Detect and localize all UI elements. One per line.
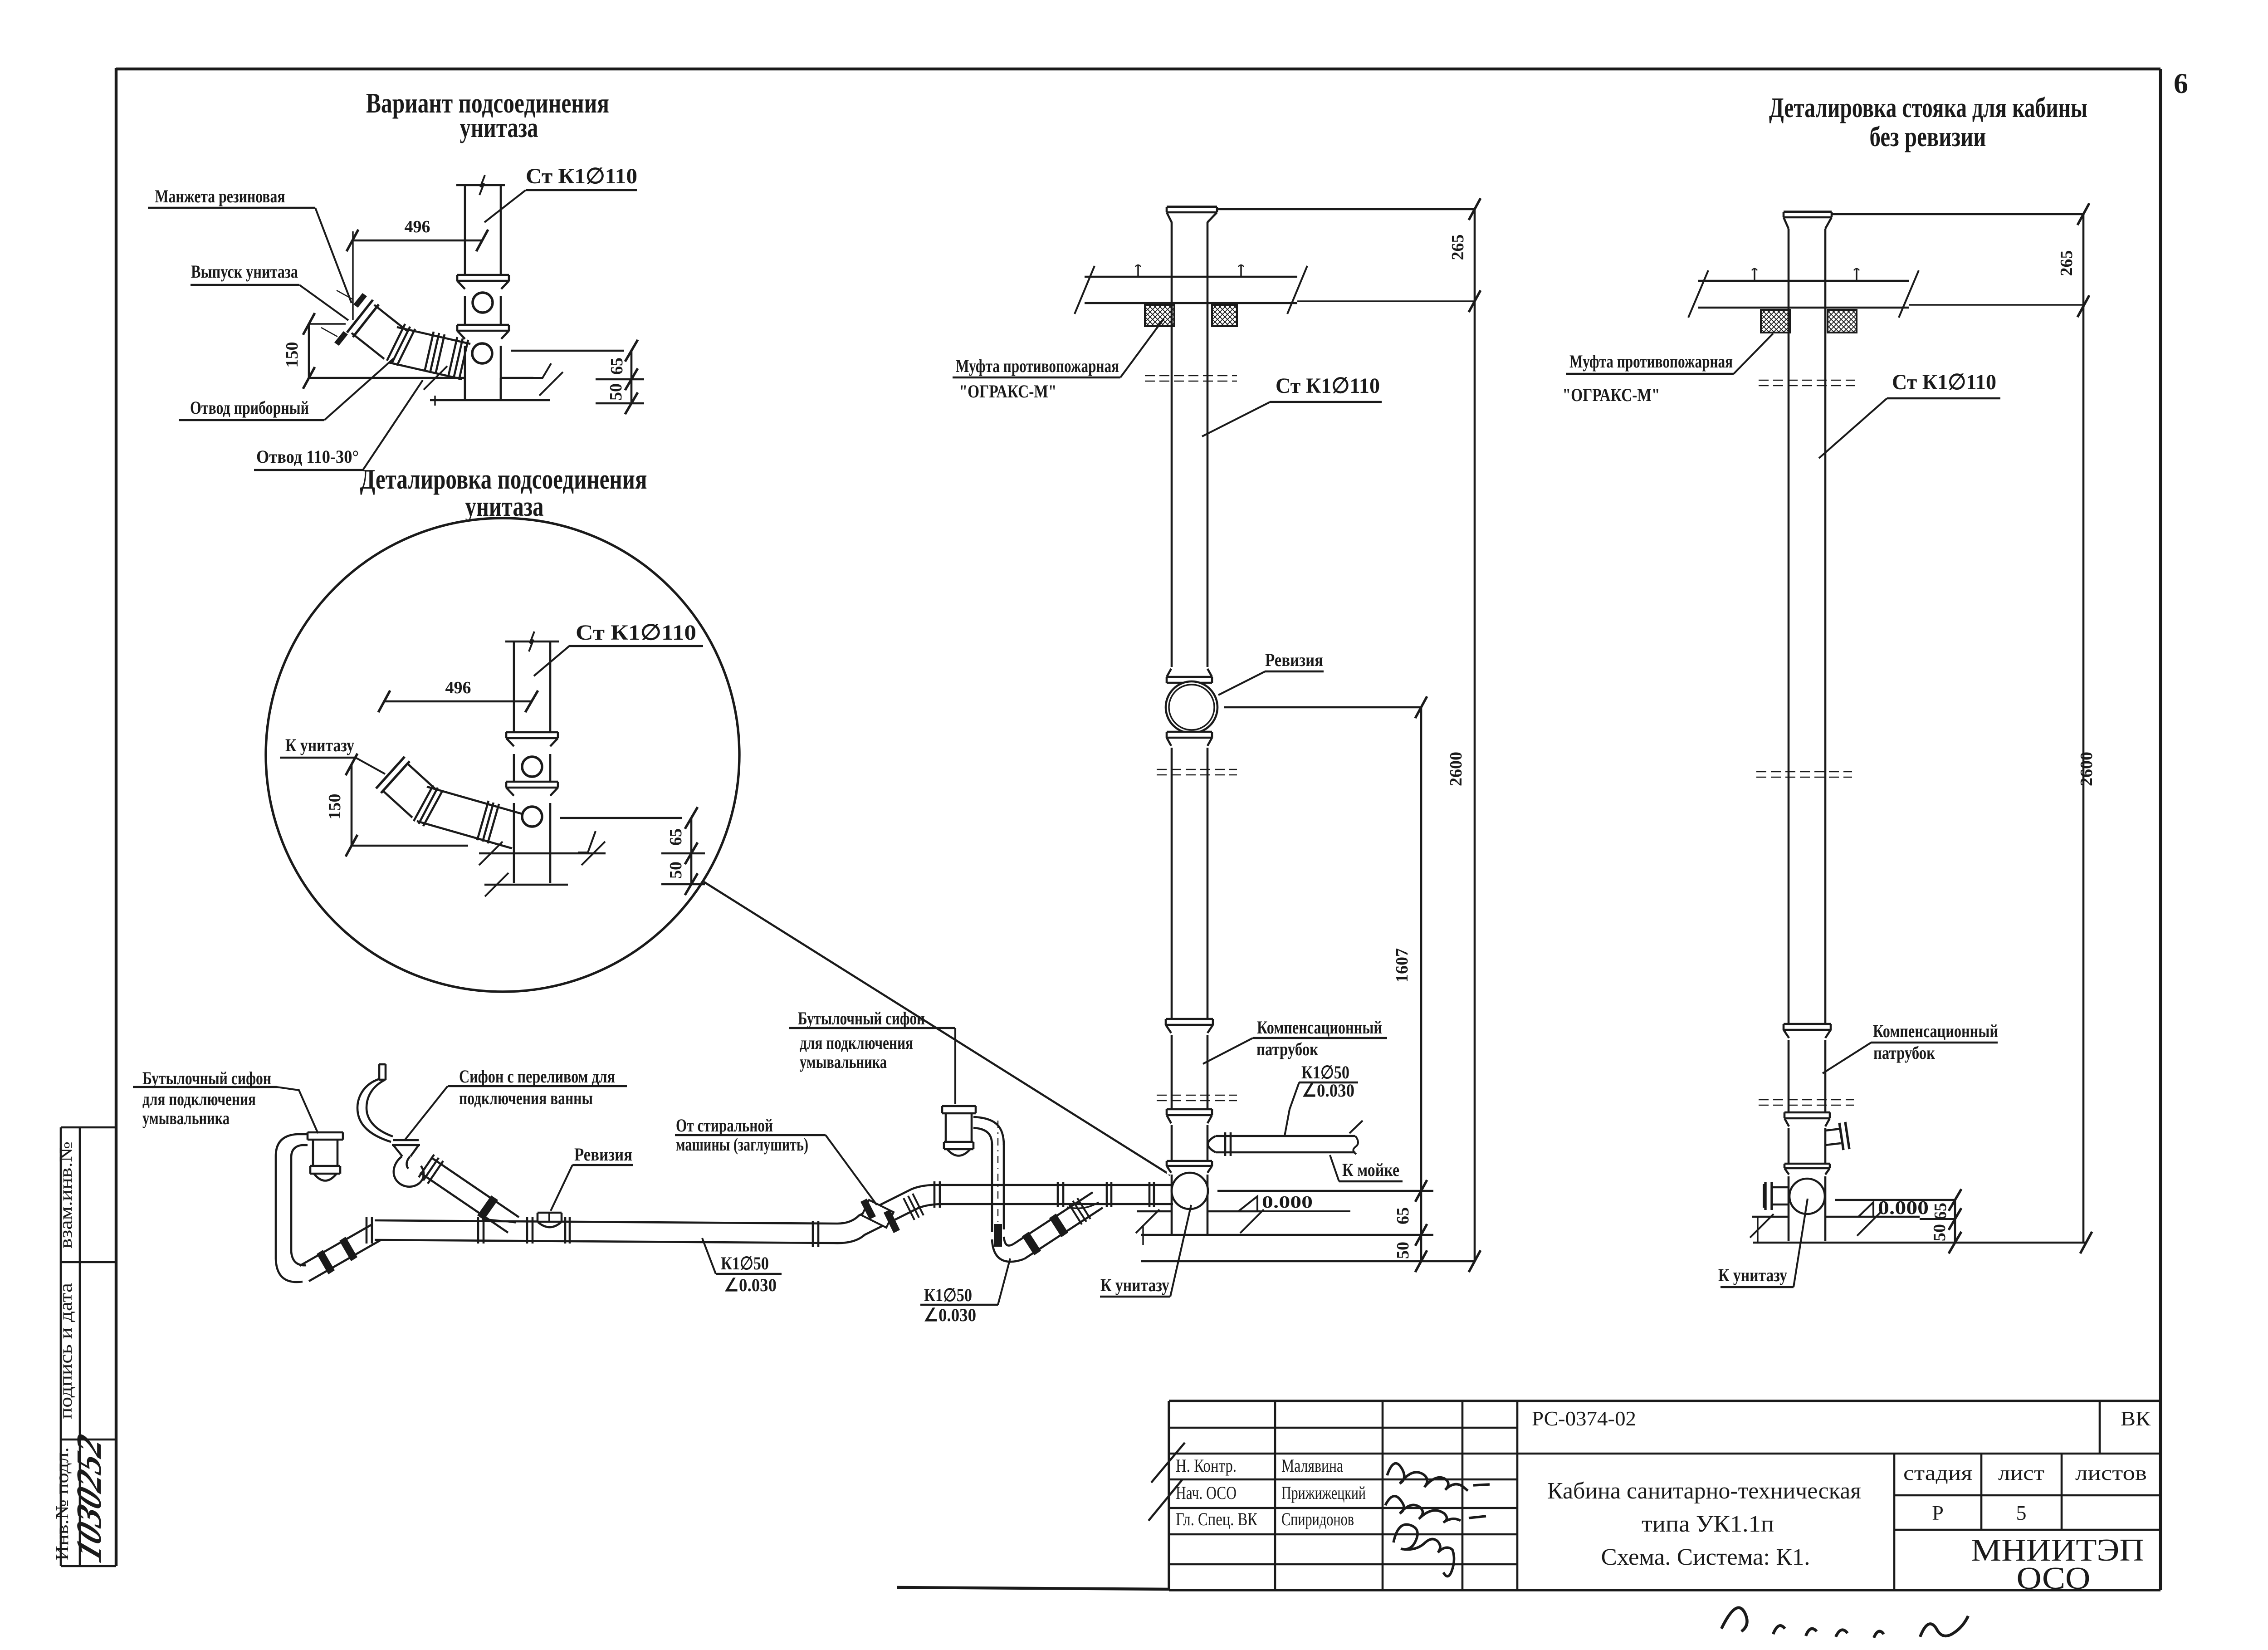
anchor pins on slab (right)	[1754, 269, 1755, 281]
revision reference line (central)	[1224, 706, 1421, 709]
coupling band 1 on branch (variant)	[387, 324, 405, 361]
tee below floor (circle detail)	[513, 853, 515, 883]
sink branch pipe K mojke	[1216, 1135, 1355, 1137]
revision lower socket (central)	[1167, 732, 1212, 748]
svg-text:265: 265	[2057, 250, 2076, 276]
ring before siphon2 Y	[1057, 1182, 1059, 1207]
slab extension line (right)	[1909, 304, 2083, 305]
compensation socket (central)	[1166, 1019, 1213, 1035]
washing machine Y stub	[862, 1200, 894, 1228]
wall dash line upper (central)	[1157, 769, 1237, 770]
black couplings on siphon2 connector	[1022, 1232, 1041, 1255]
svg-text:496: 496	[445, 678, 471, 697]
bottle siphon 1 dome	[314, 1174, 337, 1181]
svg-text:К унитазу: К унитазу	[285, 735, 354, 755]
central riser pipe	[1171, 222, 1173, 683]
siphon 2 connector diagonal	[1024, 1208, 1103, 1259]
floor break flag (circle detail)	[578, 831, 596, 852]
coupling band B (circle detail)	[477, 801, 489, 840]
socket above floor tee (central)	[1167, 1161, 1212, 1175]
revision opening circle 2 (variant)	[472, 343, 492, 363]
svg-text:типа УК1.1п: типа УК1.1п	[1642, 1511, 1774, 1537]
bottle siphon 2 body	[945, 1113, 947, 1142]
left margin cell separators	[61, 1126, 116, 1129]
ring after siphon2 Y	[1106, 1182, 1108, 1207]
bottom line (right floor dims)	[1753, 1242, 2087, 1244]
svg-text:65: 65	[1931, 1203, 1950, 1220]
svg-text:Сифон с переливом для: Сифон с переливом для	[459, 1066, 615, 1087]
bottle siphon 2 cup flange	[942, 1105, 976, 1107]
floor level flag (variant)	[533, 363, 551, 378]
dimension 265 top line (central)	[1217, 208, 1475, 211]
revision cap on run	[538, 1213, 561, 1222]
svg-text:2600: 2600	[1447, 752, 1466, 786]
dimension 1607 vertical (central)	[1420, 707, 1422, 1191]
sloped toilet branch segment 1 (circle detail)	[382, 790, 412, 818]
svg-text:Малявина: Малявина	[1281, 1455, 1343, 1476]
black coupling at siphon2 downpipe bottom	[994, 1224, 1002, 1247]
svg-text:К1∅50: К1∅50	[721, 1253, 769, 1273]
drawing frame right border	[2159, 69, 2162, 1590]
stack top cut line (circle detail)	[505, 641, 559, 643]
siphon 2 bottom elbow	[992, 1239, 1024, 1262]
svg-text:65: 65	[1393, 1207, 1413, 1224]
svg-text:65: 65	[607, 357, 626, 375]
right dim bottom line (variant)	[596, 402, 644, 405]
title block outer and grid	[1169, 1400, 1517, 1402]
overflow hose flange	[379, 1063, 386, 1066]
svg-text:Деталировка стояка для кабины: Деталировка стояка для кабины	[1769, 93, 2087, 123]
leader to siphon 2	[954, 1028, 956, 1104]
svg-text:Ст К1∅110: Ст К1∅110	[1892, 370, 1996, 394]
svg-text:496: 496	[405, 217, 430, 236]
signature 1	[1387, 1464, 1490, 1491]
svg-text:Муфта противопожарная: Муфта противопожарная	[956, 356, 1119, 376]
dashed sleeve line (right)	[1759, 380, 1855, 381]
right dim mid line (variant)	[596, 378, 644, 381]
revision circle (central)	[1166, 681, 1217, 733]
revision upper socket (central)	[1167, 667, 1212, 683]
rubber cuff marks (variant)	[353, 293, 367, 308]
floor line right segment (central)	[1208, 1210, 1260, 1213]
svg-text:без ревизии: без ревизии	[1870, 122, 1986, 152]
slab extension line (central)	[1297, 300, 1475, 302]
title block big panel top	[1517, 1400, 2160, 1402]
anchor pins on slab (central)	[1137, 265, 1139, 277]
pointer line from circle to riser	[704, 882, 1170, 1175]
dashed sleeve line (central)	[1145, 375, 1237, 377]
svg-text:Прижижецкий: Прижижецкий	[1281, 1483, 1366, 1503]
svg-text:К1∅50: К1∅50	[1301, 1062, 1349, 1082]
svg-text:листов: листов	[2075, 1461, 2147, 1484]
svg-text:патрубок: патрубок	[1256, 1039, 1318, 1059]
run socket ring before offset	[812, 1221, 814, 1247]
wall dash line lower (right)	[1759, 1099, 1854, 1101]
opening circle 2 (circle detail)	[522, 807, 542, 827]
svg-text:50: 50	[666, 862, 685, 879]
svg-text:Нач. ОСО: Нач. ОСО	[1176, 1483, 1237, 1503]
svg-text:"ОГРАКС-М": "ОГРАКС-М"	[959, 381, 1057, 401]
lower socket on stack (variant)	[457, 325, 509, 341]
level mark 0.000 (central)	[1238, 1196, 1257, 1211]
svg-text:умывальника: умывальника	[800, 1052, 887, 1072]
socket 2 (right)	[1784, 1112, 1830, 1128]
striped ring on siphon2 connector	[1069, 1204, 1082, 1224]
svg-text:взам.инв.№: взам.инв.№	[55, 1141, 76, 1249]
stack top cut line with break	[456, 184, 505, 186]
dimension baseline under branch (variant)	[309, 377, 464, 379]
svg-text:Бутылочный сифон: Бутылочный сифон	[798, 1008, 925, 1028]
bath siphon Y junction outline	[482, 1219, 516, 1223]
dimension 265 top line (right)	[1832, 213, 2083, 215]
run socket ring 2	[477, 1217, 479, 1244]
floor dim vertical (central)	[1420, 1191, 1422, 1261]
socket above sink branch (central)	[1167, 1109, 1212, 1125]
dimension 150 (variant)	[308, 324, 310, 378]
drawing frame bottom border	[897, 1587, 1169, 1589]
spigot stub lines (variant)	[337, 290, 353, 299]
title block doc number cell divider	[2099, 1401, 2101, 1454]
svg-text:"ОГРАКС-М": "ОГРАКС-М"	[1563, 385, 1660, 405]
dimension 496 (variant)	[352, 240, 482, 242]
wall dash line upper (right)	[1756, 771, 1852, 773]
svg-text:Ст К1∅110: Ст К1∅110	[526, 164, 637, 188]
svg-text:1607: 1607	[1393, 948, 1412, 983]
handwritten scrawl below title block	[1721, 1608, 1968, 1638]
svg-text:Манжета резиновая: Манжета резиновая	[155, 186, 285, 206]
svg-text:Бутылочный сифон: Бутылочный сифон	[142, 1068, 271, 1088]
title block right column	[1893, 1454, 1896, 1590]
rings flanking revision	[526, 1217, 528, 1244]
stack pipe St K1-110 (variant detail)	[464, 185, 466, 275]
svg-text:патрубок: патрубок	[1873, 1043, 1935, 1063]
ref line L1 (right floor dims)	[1835, 1199, 1955, 1201]
svg-text:1030252: 1030252	[69, 1429, 109, 1567]
main run pipe with offset bend	[375, 1185, 1173, 1224]
wall dash line lower (central)	[1157, 1095, 1237, 1096]
overflow hose	[357, 1079, 391, 1142]
opening circle 1 (circle detail)	[522, 757, 542, 777]
svg-text:50: 50	[1930, 1224, 1949, 1241]
svg-text:Компенсационный: Компенсационный	[1257, 1017, 1382, 1038]
black cap on washer stub	[860, 1199, 876, 1219]
dimension 496 (circle detail)	[384, 700, 532, 703]
right dimension vertical 265-2600 (right riser)	[2082, 214, 2085, 1243]
sloped toilet branch segment 2 (circle detail)	[417, 821, 512, 848]
right riser top cap	[1784, 211, 1832, 213]
black coupling on bath outlet	[477, 1195, 498, 1220]
bottle siphon 2 dome	[947, 1149, 970, 1156]
socket 3 (right)	[1784, 1164, 1830, 1176]
ref line L1 (central floor dims)	[1217, 1190, 1433, 1192]
bottle siphon 1 cup flange	[308, 1131, 343, 1134]
svg-text:Н. Контр.: Н. Контр.	[1176, 1455, 1237, 1476]
right dim vertical (circle detail)	[690, 818, 693, 884]
svg-text:машины (заглушить): машины (заглушить)	[676, 1134, 808, 1155]
svg-text:лист: лист	[1998, 1461, 2044, 1484]
central riser top cap	[1167, 206, 1217, 208]
run socket ring near start	[366, 1217, 368, 1244]
striped coupling on bath outlet	[419, 1155, 434, 1177]
right dim vertical (variant)	[631, 351, 633, 403]
compensation socket (right)	[1784, 1024, 1831, 1040]
svg-text:65: 65	[666, 828, 685, 846]
svg-text:Ст К1∅110: Ст К1∅110	[576, 621, 696, 645]
svg-text:Муфта противопожарная: Муфта противопожарная	[1569, 351, 1733, 372]
svg-text:∠0.030: ∠0.030	[724, 1275, 777, 1295]
svg-text:150: 150	[325, 794, 344, 820]
svg-text:Схема. Система: К1.: Схема. Система: К1.	[1601, 1544, 1810, 1570]
svg-text:Деталировка подсоединения: Деталировка подсоединения	[360, 464, 647, 495]
svg-text:умывальника: умывальника	[142, 1108, 230, 1128]
siphon 1 connector diagonal	[309, 1240, 381, 1281]
floor slab (right)	[1698, 280, 1909, 282]
black coupling on offset diagonal	[884, 1209, 900, 1233]
upper socket (circle detail)	[506, 732, 558, 748]
svg-text:Выпуск унитаза: Выпуск унитаза	[191, 261, 298, 282]
right dim bottom line (circle detail)	[661, 883, 705, 886]
floor line left segment (right)	[1752, 1216, 1789, 1218]
floor tee circle K unitazu (central)	[1172, 1173, 1208, 1209]
drawing frame top border	[116, 68, 2160, 70]
drawing frame left border	[115, 68, 117, 1566]
coupling band 2 on branch (variant)	[425, 332, 434, 372]
bath siphon funnel	[393, 1139, 419, 1141]
floor tee ball (right)	[1789, 1179, 1825, 1214]
handwritten inventory number 1030252	[69, 1429, 109, 1567]
svg-text:К мойке: К мойке	[1342, 1160, 1399, 1180]
svg-text:Компенсационный: Компенсационный	[1873, 1021, 1998, 1041]
svg-text:265: 265	[1448, 235, 1467, 260]
level mark 0.000 (right)	[1858, 1202, 1873, 1217]
svg-text:2600: 2600	[2077, 752, 2096, 786]
coupling band A (circle detail)	[414, 785, 433, 821]
bath siphon outlet diagonal	[420, 1173, 508, 1233]
left margin inner divider	[79, 1127, 81, 1566]
siphon 1 downpipe	[275, 1156, 277, 1259]
svg-text:Спиридонов: Спиридонов	[1281, 1509, 1354, 1529]
right ref line upper (circle detail)	[560, 817, 682, 819]
right reference line upper (variant)	[511, 350, 624, 352]
revision opening circle 1 (variant)	[473, 293, 493, 313]
svg-text:К1∅50: К1∅50	[924, 1285, 972, 1305]
floor line (circle detail)	[479, 852, 606, 855]
signature 3	[1393, 1524, 1454, 1576]
svg-text:Ревизия: Ревизия	[1265, 650, 1323, 670]
sloped toilet branch pipe segment 2 (variant)	[389, 362, 462, 379]
floor line right segment (right)	[1825, 1216, 1920, 1218]
siphon 2 downpipe	[991, 1144, 993, 1232]
right dimension vertical 265-2600 (central)	[1474, 209, 1476, 1261]
svg-text:ОСО: ОСО	[2017, 1561, 2091, 1596]
svg-text:0.000: 0.000	[1262, 1193, 1313, 1212]
floor line right of stack (variant)	[500, 377, 533, 379]
svg-text:5: 5	[2016, 1501, 2027, 1524]
svg-text:6: 6	[2174, 67, 2188, 99]
floor line left segment (central)	[1137, 1210, 1172, 1213]
stack tee below floor (variant)	[464, 378, 466, 400]
upper socket on stack (variant)	[457, 275, 509, 291]
svg-text:∠0.030: ∠0.030	[1302, 1080, 1354, 1101]
svg-text:Р: Р	[1932, 1501, 1944, 1524]
sloped toilet branch pipe segment 1 (variant)	[352, 333, 384, 359]
bottle siphon 2 bottom rim	[944, 1141, 973, 1143]
svg-text:К унитазу: К унитазу	[1100, 1275, 1169, 1295]
end flange of branch (variant)	[347, 300, 373, 333]
svg-text:∠0.030: ∠0.030	[924, 1305, 976, 1325]
fire muffle hatched boxes (central)	[1145, 305, 1174, 326]
dimension 150 (circle detail)	[351, 764, 353, 846]
revision boss on run	[538, 1222, 561, 1227]
svg-text:унитаза: унитаза	[460, 113, 538, 143]
line below floor L2 (central)	[1141, 1234, 1433, 1236]
right dim mid line (circle detail)	[661, 852, 705, 855]
stack pipe (circle detail)	[513, 641, 515, 732]
bath siphon body loop	[394, 1156, 424, 1187]
svg-text:50: 50	[606, 383, 626, 401]
svg-text:ВК: ВК	[2121, 1407, 2151, 1430]
svg-text:Ревизия: Ревизия	[574, 1144, 632, 1165]
left stub with flange (right riser)	[1772, 1186, 1789, 1189]
svg-text:стадия: стадия	[1903, 1461, 1972, 1484]
svg-text:для подключения: для подключения	[142, 1089, 256, 1109]
end flange (circle detail)	[376, 757, 405, 788]
ring near riser	[1149, 1182, 1151, 1207]
bottom line L3 (central)	[1141, 1260, 1475, 1263]
svg-text:Ст К1∅110: Ст К1∅110	[1276, 374, 1380, 398]
siphon2 Y junction outline	[1067, 1202, 1099, 1208]
slash marks at title block left	[1151, 1443, 1185, 1483]
left margin column line	[60, 1127, 62, 1566]
right stub with flange (right riser)	[1825, 1129, 1841, 1131]
right riser pipe	[1788, 229, 1790, 1241]
svg-text:подключения ванны: подключения ванны	[459, 1088, 593, 1108]
signature 2	[1385, 1496, 1486, 1523]
siphon 1 outlet top elbow	[297, 1133, 308, 1136]
svg-text:От стиральной: От стиральной	[676, 1115, 773, 1136]
svg-text:Отвод приборный: Отвод приборный	[190, 397, 309, 418]
floor dim vertical (right)	[1954, 1200, 1956, 1243]
svg-text:Отвод 110-30°: Отвод 110-30°	[256, 446, 359, 467]
coupling band 3 on branch (variant)	[448, 337, 457, 377]
svg-text:К унитазу: К унитазу	[1718, 1265, 1787, 1285]
siphon 2 outlet elbow	[973, 1117, 1004, 1145]
svg-text:подпись и дата: подпись и дата	[55, 1283, 76, 1419]
striped coupling on offset diagonal	[904, 1198, 914, 1220]
svg-text:Кабина санитарно-техническая: Кабина санитарно-техническая	[1547, 1478, 1861, 1504]
lower socket (circle detail)	[506, 782, 558, 798]
black couplings on siphon1 connector	[317, 1250, 335, 1274]
svg-text:РС-0374-02: РС-0374-02	[1532, 1407, 1636, 1430]
svg-text:50: 50	[1393, 1242, 1413, 1259]
floor slab (central)	[1085, 276, 1297, 278]
detail circle	[266, 518, 739, 992]
siphon 1 bottom elbow	[276, 1259, 303, 1282]
bottle siphon 1 bottom rim	[310, 1165, 340, 1167]
svg-text:150: 150	[283, 342, 302, 368]
bottle siphon 1 body	[312, 1140, 314, 1166]
fire muffle hatched boxes (right)	[1761, 310, 1790, 333]
baseline (circle detail)	[352, 845, 468, 847]
svg-text:для подключения: для подключения	[800, 1033, 913, 1053]
svg-text:Гл. Спец. ВК: Гл. Спец. ВК	[1176, 1509, 1257, 1529]
ring after offset	[934, 1181, 936, 1208]
